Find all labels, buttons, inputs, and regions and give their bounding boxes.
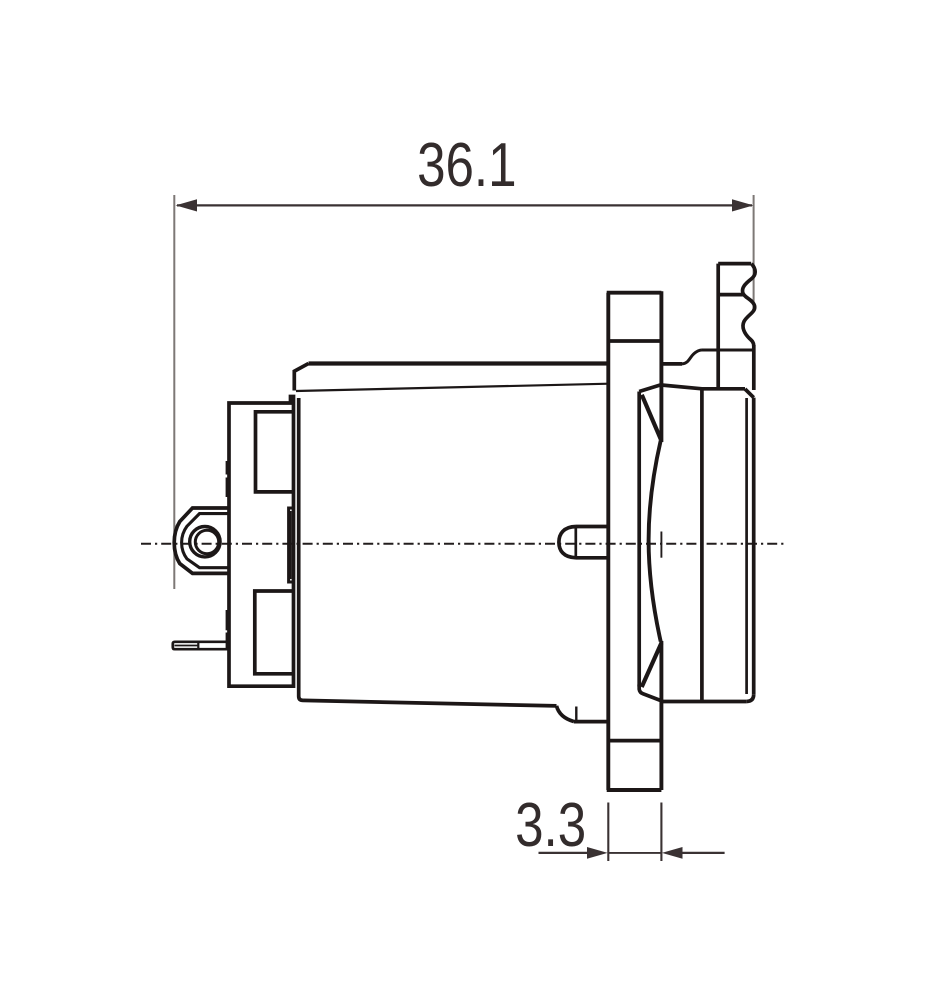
- flange left edge: [606, 293, 610, 790]
- center tick at flange right edge: [660, 532, 662, 558]
- extension line left of 3.3: [607, 803, 609, 862]
- block edge serration upper 1: [226, 461, 230, 475]
- block edge serration lower 1: [226, 610, 230, 630]
- lower terminal slot: [255, 591, 293, 674]
- locating bullet pin nose: [559, 527, 576, 558]
- latch bottom edge: [639, 685, 663, 702]
- flange bottom edge: [607, 788, 662, 792]
- middle terminal slot: [289, 508, 294, 582]
- key tab bottom edge: [574, 720, 608, 724]
- svg-text:3.3: 3.3: [515, 790, 586, 860]
- arrowhead 3.3 left: [587, 847, 608, 859]
- front body inner vertical left: [700, 389, 704, 701]
- terminal block outline: [229, 397, 294, 687]
- barrel bottom edge: [303, 700, 557, 706]
- panel inner horizontal: [718, 293, 744, 297]
- lug hole outer circle: [190, 527, 220, 557]
- lug hole inner circle: [195, 530, 218, 553]
- centerline (dash-dot axis): [141, 543, 786, 545]
- arrowhead right of 36.1: [732, 199, 753, 211]
- pin divider tick: [197, 641, 199, 650]
- front body bottom corner: [746, 694, 753, 701]
- upper terminal slot: [256, 412, 294, 492]
- block edge serration lower 2: [226, 633, 230, 649]
- flange inner line lower: [608, 739, 661, 743]
- flange inner line upper: [608, 339, 661, 343]
- locating bullet pin top line: [576, 525, 608, 529]
- key tab tick: [575, 707, 577, 722]
- key tab corner: [557, 706, 575, 722]
- front body inner vertical right: [745, 398, 748, 694]
- neck top edge at flange: [661, 362, 682, 366]
- arrowhead left of 36.1: [176, 199, 197, 211]
- flat solder pin bottom: [173, 642, 229, 649]
- svg-text:36.1: 36.1: [417, 130, 516, 200]
- middle terminal slot inner line: [290, 511, 292, 579]
- solder lug inner outline: [182, 514, 229, 568]
- pin middle seam: [175, 645, 199, 647]
- extension line left (gray, 36.1 datum at lug tip): [173, 195, 175, 589]
- neck top line through panel: [702, 349, 753, 352]
- panel break wavy edge: [742, 264, 755, 346]
- locating bullet pin base tick: [574, 526, 577, 559]
- neck chamfer curve: [682, 350, 702, 364]
- block edge serration upper 2: [226, 478, 230, 498]
- latch left edge: [637, 392, 641, 687]
- barrel top-left chamfer: [294, 364, 308, 391]
- front body bottom edge: [661, 700, 746, 704]
- panel left edge: [716, 264, 720, 390]
- front body right face: [752, 398, 756, 695]
- flange right edge upper: [659, 291, 663, 442]
- extension line right of 3.3: [660, 803, 662, 862]
- front body top chamfer: [745, 389, 754, 398]
- dimension line 3.3 right tail: [681, 852, 725, 854]
- panel top edge: [718, 262, 751, 266]
- locating bullet pin bottom line: [576, 556, 608, 560]
- latch spring arc: [649, 441, 661, 642]
- extension line right (gray, 36.1 datum at front face): [753, 195, 755, 310]
- barrel top edge: [309, 361, 610, 365]
- latch top wedge: [642, 395, 661, 440]
- dimension line 36.1: [177, 204, 752, 206]
- flange top edge: [607, 291, 662, 295]
- flange right edge lower: [659, 641, 663, 790]
- latch bottom wedge: [642, 643, 662, 687]
- barrel left edge: [299, 398, 303, 700]
- dimension line 3.3 left tail: [539, 852, 590, 854]
- solder lug outer outline: [174, 508, 229, 573]
- latch top edge: [639, 385, 661, 392]
- front body top edge: [661, 385, 745, 389]
- barrel shoulder line: [296, 384, 609, 391]
- dimension line 3.3 middle: [608, 852, 661, 854]
- panel right edge below break: [752, 345, 756, 390]
- arrowhead 3.3 right: [662, 847, 683, 859]
